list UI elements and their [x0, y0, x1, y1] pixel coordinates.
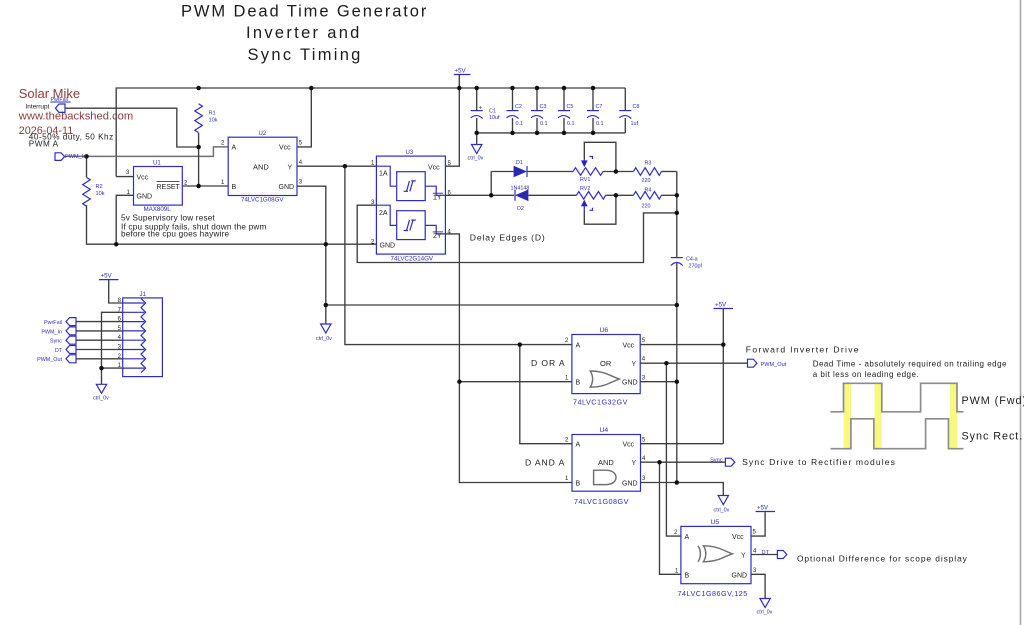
- port DT output: [762, 550, 787, 559]
- svg-text:Sync Drive to Rectifier module: Sync Drive to Rectifier modules: [742, 457, 896, 467]
- svg-text:+5V: +5V: [101, 273, 113, 280]
- svg-text:Dead Time - absolutely require: Dead Time - absolutely required on trail…: [813, 360, 1007, 369]
- svg-text:RESET: RESET: [157, 184, 181, 191]
- svg-text:4: 4: [753, 548, 757, 554]
- svg-text:A: A: [685, 534, 690, 541]
- svg-text:0.1: 0.1: [596, 121, 604, 127]
- svg-text:2A: 2A: [379, 210, 388, 217]
- svg-text:1: 1: [221, 180, 225, 186]
- svg-text:PWM_In: PWM_In: [65, 154, 86, 160]
- wire RV1 wiper loop: [584, 142, 616, 171]
- svg-text:Inverter and: Inverter and: [246, 24, 362, 42]
- svg-text:GND: GND: [279, 184, 295, 191]
- svg-text:GND: GND: [622, 380, 638, 387]
- svg-text:C1: C1: [489, 109, 496, 115]
- svg-text:5: 5: [642, 338, 646, 344]
- svg-text:Vcc: Vcc: [428, 165, 440, 172]
- port PWM_In: [55, 153, 86, 161]
- wire RV2 wiper loop: [584, 195, 616, 224]
- port Sync output: [710, 458, 735, 467]
- svg-text:0.1: 0.1: [516, 121, 524, 127]
- svg-text:3: 3: [126, 170, 130, 176]
- svg-text:AND: AND: [253, 162, 269, 171]
- svg-text:B: B: [232, 184, 237, 191]
- svg-text:ctrl_0v: ctrl_0v: [93, 396, 109, 402]
- note Dead Time: [813, 360, 1007, 380]
- gate U4 74LVC1G08GV AND: [565, 427, 646, 506]
- capacitor C3 0.1: [531, 104, 548, 127]
- ground ctrl_0v U5: [757, 599, 773, 616]
- gate U2 74LVC1G08GV AND: [221, 131, 303, 204]
- ground ctrl_0v U2: [316, 324, 332, 342]
- svg-text:5: 5: [753, 530, 757, 536]
- svg-text:AND: AND: [598, 458, 614, 467]
- svg-text:R2: R2: [96, 184, 103, 190]
- svg-text:Optional Difference for scope: Optional Difference for scope display: [797, 554, 968, 564]
- diode D2: [515, 190, 528, 213]
- svg-text:D OR A: D OR A: [531, 358, 566, 368]
- svg-text:3: 3: [753, 568, 757, 574]
- svg-text:+5V: +5V: [715, 302, 727, 309]
- svg-text:Delay Edges (D): Delay Edges (D): [470, 233, 546, 243]
- capacitor C8 1uf: [619, 104, 639, 127]
- svg-text:4: 4: [642, 456, 646, 462]
- wire capacitor bank rails: [477, 88, 626, 145]
- capacitor C1 10uF: [471, 105, 500, 122]
- svg-text:B: B: [685, 572, 690, 579]
- svg-text:C2: C2: [515, 104, 522, 110]
- svg-text:0.1: 0.1: [540, 121, 548, 127]
- schmitt cell 2: [397, 211, 426, 240]
- svg-text:Sync: Sync: [50, 339, 62, 345]
- svg-text:2: 2: [565, 437, 569, 443]
- svg-text:10k: 10k: [96, 191, 105, 197]
- wire A signal U2Y to U6/U4: [297, 166, 572, 444]
- svg-text:Interrupt: Interrupt: [26, 104, 50, 111]
- svg-text:U4: U4: [600, 427, 609, 434]
- svg-text:ctrl_0v: ctrl_0v: [468, 156, 484, 162]
- svg-text:Y: Y: [288, 164, 293, 171]
- J1 pin numbers: [118, 298, 122, 369]
- svg-text:Vcc: Vcc: [732, 534, 744, 541]
- svg-text:R3: R3: [645, 161, 652, 167]
- svg-text:PWM Dead Time Generator: PWM Dead Time Generator: [181, 3, 428, 21]
- resistor R1: [195, 104, 218, 133]
- port PWM_Out J1: [37, 355, 76, 363]
- wire D signal 2Y to U6B/U4B: [445, 234, 572, 483]
- svg-text:3: 3: [642, 375, 646, 381]
- svg-text:MAX809L: MAX809L: [144, 206, 172, 213]
- svg-text:10k: 10k: [209, 118, 218, 124]
- svg-text:GND: GND: [622, 481, 638, 488]
- svg-text:A: A: [232, 145, 237, 152]
- wire U6 Y to PWM_Out and U5 A: [640, 363, 747, 536]
- svg-text:C5: C5: [567, 104, 574, 110]
- svg-text:4: 4: [299, 160, 303, 166]
- svg-text:Vcc: Vcc: [279, 145, 291, 152]
- svg-text:U6: U6: [600, 327, 609, 334]
- svg-text:Vcc: Vcc: [623, 442, 635, 449]
- capacitor C5 0.1: [558, 104, 575, 127]
- note 5v supervisory: [121, 214, 267, 239]
- AND gate symbol: [594, 470, 616, 484]
- svg-text:0.1: 0.1: [567, 121, 575, 127]
- XOR gate symbol: [703, 546, 732, 562]
- wire ground bus y244: [87, 186, 677, 324]
- svg-text:PwrFail: PwrFail: [44, 320, 62, 326]
- ground ctrl_0v U4: [714, 496, 730, 514]
- port PWM_In J1: [41, 327, 76, 335]
- svg-text:+5V: +5V: [454, 67, 466, 74]
- ground ctrl_0v J1: [93, 384, 109, 401]
- svg-text:Y: Y: [741, 553, 746, 560]
- ground ctrl_0v caps: [468, 145, 484, 162]
- wire U4 Y to Sync and U5 B: [641, 462, 726, 574]
- svg-text:ctrl_0v: ctrl_0v: [316, 336, 332, 342]
- svg-text:PWM_In: PWM_In: [41, 329, 62, 335]
- wire U1 GND down: [116, 195, 133, 244]
- resistor R2: [83, 177, 105, 206]
- wire +5V branch U6 U4: [640, 309, 723, 444]
- potentiometer RV1: [573, 157, 603, 184]
- wire U5 Vcc: [751, 512, 765, 537]
- svg-text:270pf: 270pf: [689, 264, 703, 270]
- svg-text:D AND A: D AND A: [525, 458, 565, 468]
- port Sync J1: [50, 336, 76, 344]
- svg-text:3: 3: [299, 180, 303, 186]
- gate U3 74LVC2G14GV dual schmitt inverter: [371, 150, 452, 263]
- power +5V J1: [99, 273, 119, 280]
- svg-text:RV2: RV2: [580, 186, 590, 192]
- capacitor C7 0.1: [587, 104, 604, 127]
- J1 pin rows: [123, 303, 145, 368]
- title text: [181, 3, 428, 65]
- svg-text:B: B: [576, 380, 581, 387]
- resistor R4 220: [633, 188, 661, 210]
- svg-text:10uf: 10uf: [489, 115, 500, 121]
- svg-text:A: A: [576, 343, 581, 350]
- svg-text:5: 5: [642, 437, 646, 443]
- sheet border right edge: [1020, 0, 1022, 625]
- svg-text:GND: GND: [380, 242, 396, 249]
- svg-text:Sync Rect.: Sync Rect.: [962, 431, 1024, 443]
- capacitor C2 0.1: [507, 104, 524, 127]
- svg-text:D1: D1: [516, 160, 523, 166]
- resistor R3 220: [633, 161, 661, 185]
- svg-text:220: 220: [642, 178, 651, 184]
- svg-text:2: 2: [674, 530, 678, 536]
- svg-text:1: 1: [675, 568, 679, 574]
- svg-text:3: 3: [642, 476, 646, 482]
- svg-text:5v Supervisory low reset: 5v Supervisory low reset: [121, 214, 216, 223]
- wire R2 top tap: [86, 156, 88, 177]
- svg-text:OR: OR: [600, 359, 612, 368]
- svg-text:C8: C8: [633, 104, 640, 110]
- port DT J1: [55, 346, 76, 354]
- svg-text:a bit less on leading edge.: a bit less on leading edge.: [813, 370, 919, 379]
- svg-text:1: 1: [565, 375, 569, 381]
- wire J1 port rows: [76, 322, 123, 359]
- wire Interrupt net: [65, 108, 199, 147]
- svg-text:1uf: 1uf: [631, 121, 639, 127]
- waveform dead-time yellow bars: [844, 383, 958, 449]
- svg-text:+: +: [479, 105, 483, 112]
- svg-text:74LVC1G08GV: 74LVC1G08GV: [574, 497, 629, 506]
- svg-text:R4: R4: [645, 188, 652, 194]
- J1 sawtooth: [141, 298, 146, 372]
- diode D1 1N4148: [511, 160, 530, 192]
- gate U5 74LVC1G86GV XOR: [674, 519, 757, 598]
- svg-text:1: 1: [565, 476, 569, 482]
- svg-text:U1: U1: [153, 161, 161, 167]
- svg-text:U2: U2: [259, 131, 267, 137]
- potentiometer RV2: [576, 186, 605, 210]
- svg-text:74LVC1G86GV,125: 74LVC1G86GV,125: [678, 589, 748, 598]
- wire 2A delay loop: [357, 205, 677, 262]
- svg-text:Vcc: Vcc: [137, 175, 149, 182]
- power +5V U5: [756, 505, 776, 512]
- svg-text:Y: Y: [632, 460, 637, 467]
- svg-text:Y: Y: [632, 361, 637, 368]
- svg-text:74LVC1G08GV: 74LVC1G08GV: [241, 197, 284, 204]
- svg-text:Forward Inverter Drive: Forward Inverter Drive: [746, 345, 860, 355]
- wire R1 bottom to RESET/B: [182, 133, 228, 186]
- power +5V main: [454, 67, 471, 74]
- svg-text:5: 5: [299, 141, 303, 147]
- svg-text:C7: C7: [596, 104, 603, 110]
- svg-text:A: A: [576, 442, 581, 449]
- svg-text:Solar Mike: Solar Mike: [19, 86, 80, 101]
- svg-text:2: 2: [565, 338, 569, 344]
- svg-text:RV1: RV1: [580, 177, 590, 183]
- svg-text:GND: GND: [732, 572, 748, 579]
- svg-text:Vcc: Vcc: [623, 343, 635, 350]
- svg-text:74LVC1G32GV: 74LVC1G32GV: [573, 398, 628, 407]
- svg-text:4: 4: [642, 357, 646, 363]
- power +5V U6: [714, 302, 734, 309]
- svg-text:Sync: Sync: [710, 458, 723, 464]
- waveform PWM trace: [831, 383, 964, 412]
- op-amp U1 MAX809L supervisor: [126, 161, 188, 213]
- port PWM_Out output: [748, 359, 787, 368]
- svg-text:PWM (Fwd): PWM (Fwd): [962, 395, 1024, 407]
- svg-text:2: 2: [221, 141, 225, 147]
- svg-text:C4-a: C4-a: [686, 257, 698, 263]
- OR gate symbol: [590, 371, 619, 387]
- port PwrFail (Interrupt): [26, 97, 71, 113]
- svg-text:U3: U3: [406, 150, 414, 156]
- svg-text:Sync Timing: Sync Timing: [248, 46, 363, 64]
- svg-text:GND: GND: [137, 193, 153, 200]
- wire +5V top rail: [116, 75, 625, 177]
- connector J1: [118, 292, 163, 377]
- capacitor C4-a 270pf: [671, 257, 703, 270]
- wire J1 pin7 pin1 ground: [102, 312, 123, 384]
- svg-text:J1: J1: [140, 292, 147, 298]
- svg-text:R1: R1: [209, 111, 216, 117]
- svg-text:74LVC2G14GV: 74LVC2G14GV: [391, 256, 434, 263]
- svg-text:U5: U5: [711, 519, 720, 526]
- svg-text:ctrl_0v: ctrl_0v: [757, 610, 773, 616]
- port PwrFail J1: [44, 318, 76, 326]
- wire PWM_In net: [65, 147, 229, 157]
- schmitt cell 1: [397, 172, 426, 201]
- svg-text:PWM_Out: PWM_Out: [37, 357, 62, 363]
- wire 1Y diode rows: [445, 172, 676, 258]
- wire U5 Y to DT: [751, 554, 777, 556]
- svg-text:before the cpu goes haywire: before the cpu goes haywire: [121, 230, 230, 239]
- wire J1 pin8 +5V: [109, 280, 123, 303]
- wire ctrl ground vertical C4a to U4: [640, 263, 723, 496]
- svg-text:D2: D2: [517, 206, 524, 212]
- svg-text:B: B: [576, 481, 581, 488]
- svg-text:1A: 1A: [379, 171, 388, 178]
- svg-text:220: 220: [642, 204, 651, 210]
- svg-text:PWM_Out: PWM_Out: [761, 362, 787, 368]
- wire U5 GND: [751, 574, 765, 598]
- svg-text:DT: DT: [762, 550, 770, 556]
- svg-text:ctrl_0v: ctrl_0v: [714, 508, 730, 514]
- svg-text:+5V: +5V: [757, 505, 769, 512]
- svg-text:C3: C3: [540, 104, 547, 110]
- svg-text:PWM A: PWM A: [29, 140, 59, 149]
- waveform Sync trace: [831, 419, 964, 449]
- gate U6 74LVC1G32GV OR: [565, 327, 646, 407]
- svg-text:DT: DT: [55, 348, 63, 354]
